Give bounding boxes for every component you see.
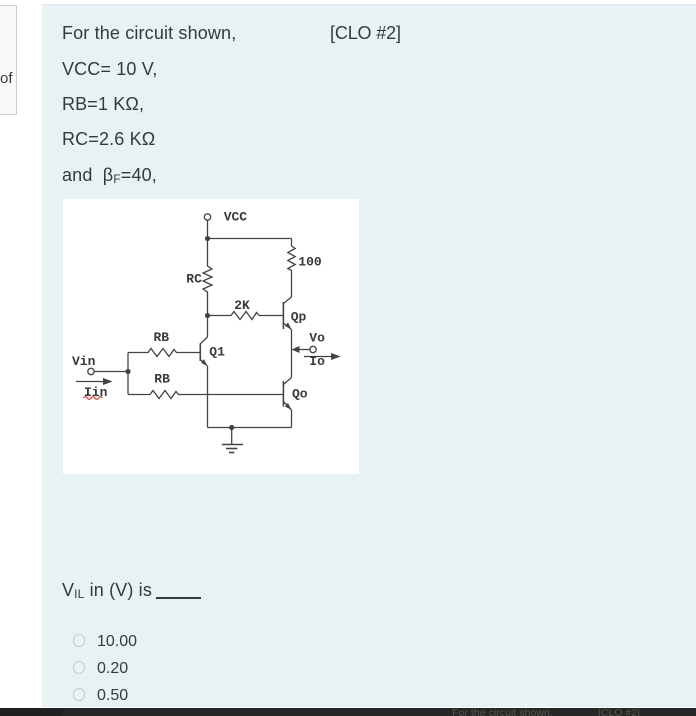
- resistor RC: [203, 239, 212, 316]
- svg-text:Io: Io: [309, 354, 325, 369]
- svg-text:Qo: Qo: [292, 387, 308, 402]
- options: [73, 634, 86, 647]
- node top: [205, 236, 210, 241]
- Vin terminal: [88, 368, 94, 374]
- transistor Qp: [282, 302, 284, 329]
- ground: [231, 428, 233, 445]
- wire Q1 collector up: [207, 316, 209, 338]
- svg-text:RB: RB: [154, 372, 170, 387]
- wire Qo emitter down: [291, 410, 293, 428]
- Io arrow: [304, 356, 334, 358]
- blank line: [156, 597, 201, 599]
- bottom RB wire from input node down: [127, 372, 129, 395]
- wire top horizontal: [208, 238, 292, 240]
- wire Qp emitter to Vo node: [291, 330, 293, 350]
- node RC bottom: [205, 313, 210, 318]
- wire 2K to Qp base: [259, 315, 283, 317]
- resistor RB top: [128, 349, 200, 357]
- transistor Qo: [282, 381, 284, 407]
- svg-text:Q1: Q1: [209, 345, 225, 360]
- Vo terminal: [310, 346, 316, 352]
- wire right down to resistor: [291, 239, 293, 247]
- svg-text:100: 100: [298, 255, 322, 270]
- bottom wire: [208, 427, 292, 429]
- circuit figure: [63, 199, 359, 474]
- resistor 100: [288, 246, 295, 271]
- wire VCC down: [207, 220, 209, 238]
- left partial box with 'of': [0, 5, 17, 115]
- wire Q1 emitter down: [207, 366, 209, 427]
- svg-text:RB: RB: [154, 330, 170, 345]
- ground node: [229, 425, 234, 430]
- Iin red wavy underline: [84, 397, 103, 400]
- Vo node arrow: [298, 349, 310, 351]
- wire node to 2K: [208, 315, 232, 317]
- wire Vin to node: [94, 371, 128, 373]
- svg-text:RC: RC: [186, 272, 202, 287]
- question text: [62, 23, 236, 44]
- svg-text:Vo: Vo: [309, 331, 325, 346]
- transistor Q1: [199, 344, 201, 362]
- resistor 2K: [231, 312, 259, 320]
- svg-text:Vin: Vin: [72, 354, 96, 369]
- svg-text:VCC: VCC: [224, 210, 248, 225]
- top RB wire from input node up: [127, 353, 129, 372]
- VCC terminal: [204, 214, 210, 220]
- Iin arrow: [76, 381, 106, 383]
- svg-text:2K: 2K: [234, 298, 250, 313]
- white separator above bar: [42, 707, 696, 709]
- VIL question: [62, 580, 157, 601]
- bottom next question text (partially visible): [452, 707, 553, 716]
- wire to Qp collector: [291, 271, 293, 298]
- resistor RB bottom: [128, 391, 283, 399]
- input node: [125, 369, 130, 374]
- svg-text:Qp: Qp: [291, 310, 307, 325]
- wire Vo node down to Qo collector: [291, 350, 293, 378]
- dark bottom bar: [0, 708, 696, 716]
